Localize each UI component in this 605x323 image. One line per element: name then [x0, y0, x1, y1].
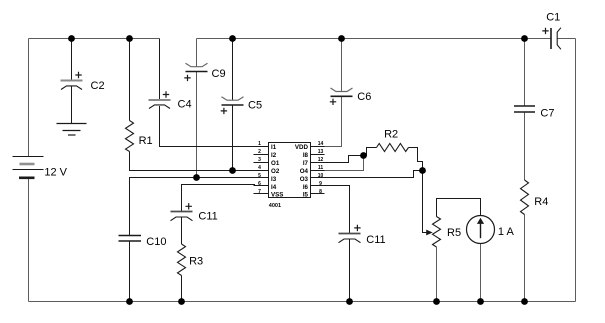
capacitor C7 [514, 106, 535, 112]
capacitor C11 left [171, 203, 193, 221]
svg-text:I6: I6 [303, 184, 309, 191]
wire pin10 row step [325, 171, 423, 178]
svg-text:I4: I4 [271, 184, 277, 191]
svg-text:O3: O3 [300, 176, 309, 183]
svg-text:C5: C5 [248, 100, 262, 112]
node dot B R2 pin10 [419, 167, 426, 174]
svg-text:I2: I2 [271, 152, 277, 159]
svg-text:12: 12 [318, 157, 324, 163]
svg-text:VDD: VDD [295, 144, 309, 151]
wire bottom rail [29, 301, 576, 303]
wire R2 right lead [409, 148, 423, 171]
svg-text:4: 4 [258, 165, 261, 171]
wire R1 column to pin4 [130, 39, 269, 171]
svg-text:O2: O2 [271, 168, 280, 175]
svg-text:C9: C9 [212, 68, 226, 80]
node dot top R1 [126, 35, 133, 42]
svg-text:C7: C7 [540, 108, 554, 120]
svg-text:C11: C11 [366, 234, 385, 246]
wire right column C7 R4 [524, 39, 526, 302]
pin labels right [295, 144, 309, 198]
pin stubs left [254, 147, 269, 194]
capacitor C5 [221, 97, 244, 114]
svg-text:I1: I1 [271, 144, 277, 151]
node dot bottom R3 [178, 298, 185, 305]
op-amp U1 4001 body [269, 143, 311, 198]
capacitor C9 [184, 63, 207, 81]
node dot bottom R4 [521, 298, 528, 305]
svg-text:VSS: VSS [271, 191, 283, 198]
wire pin5 row and C10 column [130, 178, 269, 302]
svg-text:R5: R5 [447, 227, 461, 239]
svg-text:3: 3 [258, 157, 261, 163]
svg-text:R4: R4 [534, 196, 548, 208]
wire pin6 row to C11 left column [182, 185, 255, 302]
svg-text:11: 11 [318, 165, 324, 171]
svg-text:8: 8 [319, 189, 322, 195]
node dot A pin 12 R2 [360, 152, 367, 159]
wire R5 wiper [423, 171, 427, 233]
node dot C5 pin4 [229, 167, 236, 174]
wire top rail right [197, 38, 552, 40]
node dot bottom R5 [433, 298, 440, 305]
svg-text:4001: 4001 [269, 203, 281, 209]
node dot top C7 [521, 35, 528, 42]
svg-text:C2: C2 [91, 80, 105, 92]
svg-text:I8: I8 [303, 152, 309, 159]
wiper arrowhead R5 [426, 230, 433, 236]
current source I1 1A [467, 216, 495, 244]
ground [57, 124, 87, 136]
wire R2 left lead [364, 148, 377, 156]
svg-text:I5: I5 [303, 191, 309, 198]
capacitor C6 [330, 88, 353, 105]
node dot bottom C11 right [346, 298, 353, 305]
wire C4 column to pin1 [160, 39, 269, 147]
capacitor C10 [119, 236, 142, 242]
node dot bottom 1A [477, 298, 484, 305]
svg-text:12 V: 12 V [44, 167, 67, 179]
resistor R3 [178, 244, 186, 276]
wire C5 column [232, 39, 234, 171]
node dot bottom C10 [126, 298, 133, 305]
svg-text:C1: C1 [546, 12, 560, 24]
svg-text:R3: R3 [189, 255, 203, 267]
svg-text:C11: C11 [198, 211, 217, 223]
wire C1 right to right edge [557, 39, 575, 302]
wire left rail lower [28, 179, 30, 302]
wire pin11 link [325, 156, 364, 171]
pin stubs right [311, 147, 325, 194]
svg-text:R1: R1 [139, 135, 153, 147]
capacitor C4 [149, 91, 171, 108]
svg-text:14: 14 [318, 141, 324, 147]
wire C9 column [196, 39, 198, 178]
svg-text:O4: O4 [300, 168, 309, 175]
resistor R2 [377, 144, 409, 152]
pin numbers right [318, 141, 324, 195]
svg-text:1: 1 [258, 141, 261, 147]
capacitor C11 right [339, 225, 361, 243]
wire pin9 row to C11 right column [325, 186, 350, 302]
svg-text:7: 7 [258, 189, 261, 195]
wire R5 bottom lead [436, 247, 438, 302]
svg-text:I3: I3 [271, 176, 277, 183]
svg-text:9: 9 [319, 181, 322, 187]
svg-text:O1: O1 [271, 160, 280, 167]
resistor R4 [521, 180, 529, 215]
node dot top C6 [338, 35, 345, 42]
wire pin12 step to node A [325, 156, 364, 163]
svg-text:C10: C10 [146, 236, 166, 248]
wire R5 top bar [437, 199, 481, 217]
wire 1A bottom lead [480, 244, 482, 302]
pin labels left [271, 144, 283, 198]
svg-text:C6: C6 [357, 91, 371, 103]
wire C6 riser and pin14 feed [325, 39, 342, 147]
resistor R1 [126, 121, 134, 152]
svg-text:13: 13 [318, 149, 324, 155]
capacitor C1 [542, 28, 561, 50]
node dot top C2 [68, 35, 75, 42]
node dot top C5 [229, 35, 236, 42]
svg-text:5: 5 [258, 173, 261, 179]
svg-text:R2: R2 [384, 128, 398, 140]
wire C2 column [71, 39, 73, 124]
wire top rail left [29, 38, 160, 40]
capacitor C2 [61, 72, 83, 90]
svg-text:1 A: 1 A [498, 226, 515, 238]
svg-text:C4: C4 [178, 99, 192, 111]
wire left rail upper [28, 39, 30, 157]
node dot C9 pin5 [193, 174, 200, 181]
svg-text:10: 10 [318, 173, 324, 179]
potentiometer R5 [433, 217, 441, 248]
svg-text:2: 2 [258, 149, 261, 155]
svg-text:I7: I7 [303, 160, 309, 167]
battery V1 12V [13, 157, 44, 178]
pin numbers left [258, 141, 261, 195]
svg-text:6: 6 [258, 181, 261, 187]
